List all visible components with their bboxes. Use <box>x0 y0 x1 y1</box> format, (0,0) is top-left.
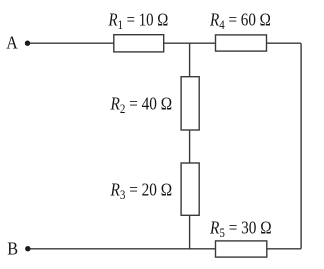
svg-text:R5 = 30 Ω: R5 = 30 Ω <box>209 217 272 240</box>
wire top A to right <box>28 42 301 44</box>
wire middle branch <box>189 43 191 249</box>
node A terminal dot <box>25 41 30 46</box>
resistor R5 <box>216 241 267 257</box>
wire right vertical <box>300 43 302 249</box>
svg-text:R4 = 60 Ω: R4 = 60 Ω <box>209 9 271 32</box>
svg-text:A: A <box>6 33 18 53</box>
resistor R3 <box>181 163 199 215</box>
node B terminal dot <box>25 246 30 251</box>
wire bottom right to R5 <box>267 248 301 250</box>
svg-text:R3 = 20 Ω: R3 = 20 Ω <box>110 179 173 202</box>
resistor R1 <box>114 35 164 52</box>
resistor R2 <box>181 77 199 130</box>
resistor R4 <box>216 35 267 51</box>
svg-text:R1 = 10 Ω: R1 = 10 Ω <box>108 9 169 32</box>
svg-text:R2 = 40 Ω: R2 = 40 Ω <box>110 93 173 116</box>
wire bottom B to R5 <box>28 248 216 250</box>
svg-text:B: B <box>7 239 18 259</box>
